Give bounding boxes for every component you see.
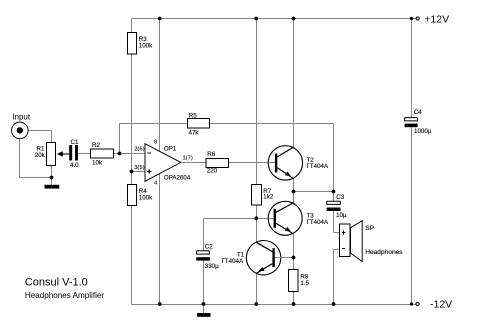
svg-text:+12V: +12V: [424, 14, 449, 26]
svg-text:1k2: 1k2: [263, 194, 274, 201]
svg-text:Headphones: Headphones: [365, 249, 403, 256]
svg-text:ГТ404А: ГТ404А: [307, 163, 329, 170]
svg-text:20k: 20k: [35, 152, 46, 159]
svg-text:4.0: 4.0: [70, 162, 79, 169]
svg-text:-12V: -12V: [430, 299, 452, 311]
svg-text:R6: R6: [207, 151, 215, 158]
svg-text:R5: R5: [189, 112, 197, 119]
svg-text:3(5): 3(5): [134, 165, 144, 171]
svg-text:Input: Input: [12, 112, 31, 121]
svg-text:100k: 100k: [139, 194, 153, 201]
svg-text:330µ: 330µ: [205, 263, 219, 270]
svg-text:1.5: 1.5: [300, 280, 309, 287]
svg-text:OP1: OP1: [164, 146, 177, 153]
svg-text:OPA2604: OPA2604: [164, 175, 191, 182]
svg-text:R2: R2: [92, 142, 100, 149]
svg-text:Consul V-1.0: Consul V-1.0: [25, 277, 88, 289]
svg-text:2(6): 2(6): [134, 147, 144, 153]
svg-text:47k: 47k: [189, 130, 200, 137]
svg-text:C3: C3: [336, 194, 344, 201]
svg-text:C1: C1: [71, 139, 79, 146]
svg-text:1000µ: 1000µ: [414, 128, 432, 135]
svg-text:C4: C4: [414, 109, 422, 116]
svg-text:220: 220: [207, 167, 218, 174]
svg-text:8: 8: [154, 139, 157, 145]
svg-text:10k: 10k: [92, 160, 103, 167]
svg-text:10µ: 10µ: [336, 212, 347, 219]
svg-text:SP: SP: [365, 225, 374, 232]
svg-text:ГТ404А: ГТ404А: [222, 258, 244, 265]
svg-text:1(7): 1(7): [183, 156, 193, 162]
svg-text:C2: C2: [205, 244, 213, 251]
svg-text:ГТ404А: ГТ404А: [307, 219, 329, 226]
svg-text:Headphones Amplifier: Headphones Amplifier: [25, 291, 104, 300]
svg-text:100k: 100k: [139, 42, 153, 49]
